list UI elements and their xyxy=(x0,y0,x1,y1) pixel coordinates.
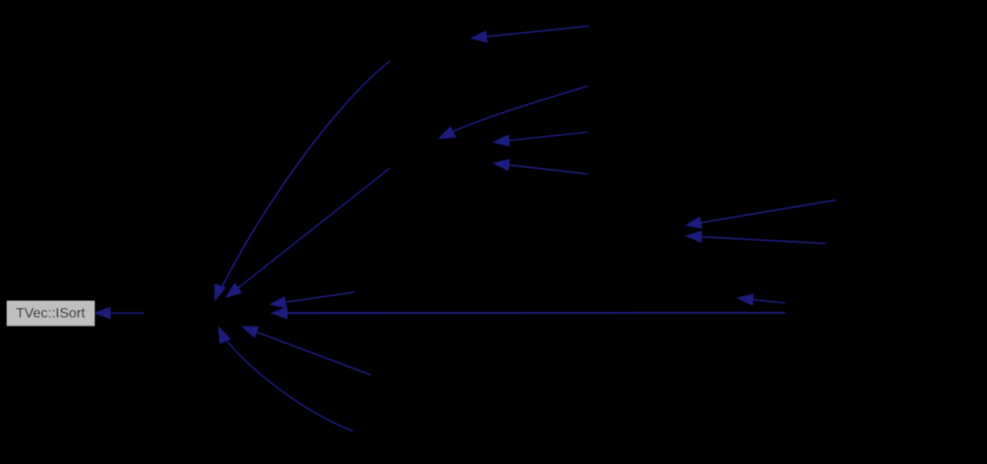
edge lower caller to Sort xyxy=(242,327,371,376)
edge Sort to ISort xyxy=(95,307,145,318)
edge short caller to Sort xyxy=(270,292,355,308)
svg-text:TVec::ISort: TVec::ISort xyxy=(16,305,85,321)
node TVec::ISort xyxy=(7,301,96,327)
edge caller a to node Y xyxy=(494,132,589,146)
edge far right caller 2 to node U xyxy=(686,231,826,243)
edge far right caller 1 to node U xyxy=(686,200,837,228)
edge curved caller to node Y xyxy=(439,86,588,139)
edge upper caller to Sort xyxy=(226,168,390,298)
edge top right caller to node X xyxy=(471,26,589,42)
edge top curved caller to Sort xyxy=(215,61,390,301)
edge long horizontal caller to Sort xyxy=(272,307,786,318)
edge bottom curved caller to Sort xyxy=(219,327,354,431)
edge caller b to node Y xyxy=(494,159,589,174)
edge caller to node W xyxy=(738,294,786,305)
